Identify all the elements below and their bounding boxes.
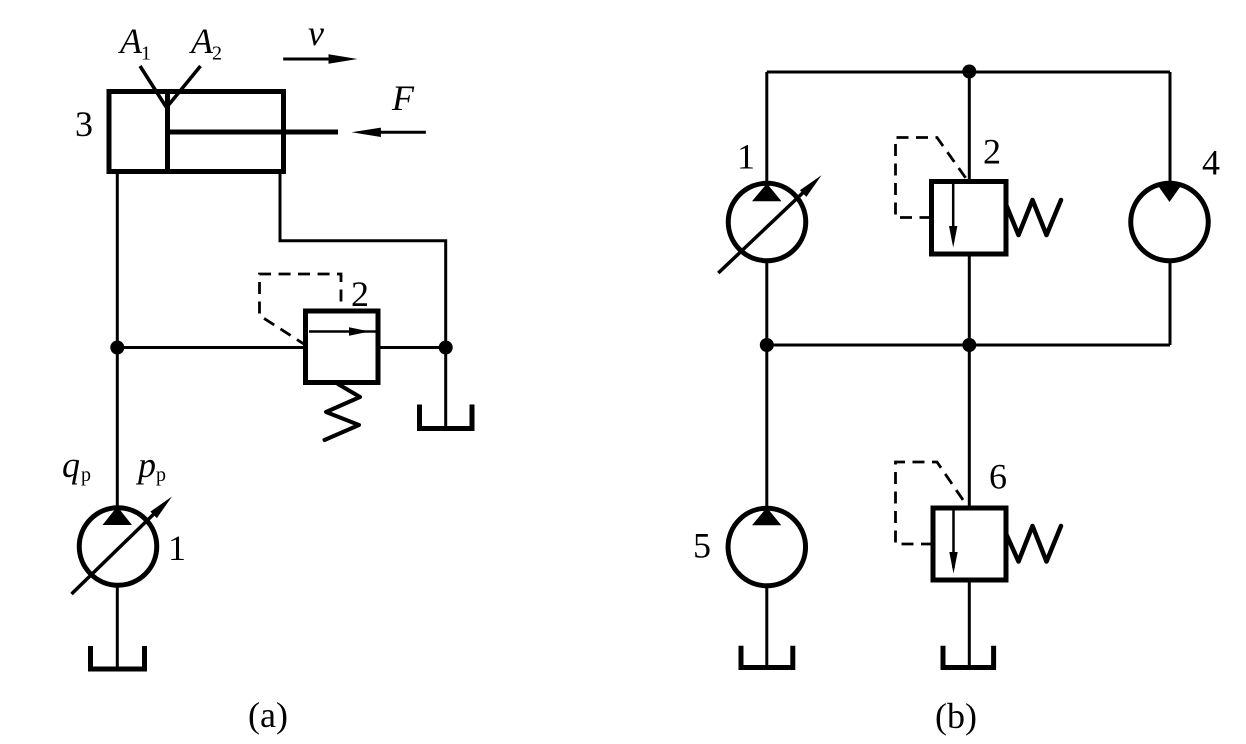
wire rod-side branch circuit a [280,172,446,427]
pump 5 triangle [752,508,781,526]
label 6 [989,457,1007,497]
svg-text:6: 6 [989,457,1007,497]
label (b) [935,696,977,736]
svg-text:(b): (b) [935,696,977,736]
junction node a-left [110,341,124,355]
svg-text:2: 2 [212,43,222,65]
cylinder 3 body [109,92,284,172]
junction node a-right [439,341,453,355]
svg-text:1: 1 [141,43,151,65]
pump 1a variable arrow [72,497,173,595]
relief valve 6 body [933,508,1006,580]
relief valve 2a body [306,311,379,383]
pump 1b circle [728,183,806,261]
pump 1a circle [79,508,157,586]
label A2 [189,21,222,65]
svg-text:p: p [81,464,91,486]
spring of valve 6 [1006,526,1061,562]
junction node b-mid-left [760,338,774,352]
svg-text:p: p [156,464,166,486]
wire pilot dashed valve 6 [896,462,968,544]
relief valve 2b body [932,182,1007,255]
wire pilot dashed valve 2a [260,274,342,346]
label 5 [693,526,711,566]
svg-text:2: 2 [983,131,1001,171]
motor 4 triangle [1157,184,1183,203]
label F [391,78,415,118]
relief valve 2a internal arrow [309,327,376,336]
svg-text:(a): (a) [248,695,288,735]
label A1 [118,21,151,65]
pump 1a triangle [103,507,133,526]
svg-text:1: 1 [737,137,755,177]
force arrow F [352,128,426,137]
svg-text:A: A [189,21,214,61]
wire middle line circuit b [767,344,1170,347]
wire valve line circuit a [117,346,445,349]
junction node b-top [962,65,976,79]
wire left branch circuit a [116,172,119,668]
pump 1b triangle [752,184,782,202]
label 1a [168,528,186,568]
label 4 [1202,143,1220,183]
svg-text:5: 5 [693,526,711,566]
wire pump 1 branch circuit b [765,72,768,345]
svg-text:A: A [118,21,143,61]
spring of valve 2b [1006,200,1061,235]
svg-text:v: v [308,13,324,53]
spring of valve 2a [325,384,361,440]
leader line A1 [140,66,167,108]
relief valve 6 internal arrow [949,510,957,574]
motor 4 circle [1131,183,1209,261]
wire pilot dashed valve 2b [896,138,968,218]
label q_p [62,445,91,486]
svg-text:q: q [62,445,80,485]
svg-text:F: F [391,78,415,118]
svg-text:4: 4 [1202,143,1220,183]
pump 5 circle [728,508,806,586]
label 2b [983,131,1001,171]
pump 1b variable arrow [718,175,821,273]
velocity arrow v [283,54,357,63]
svg-text:2: 2 [351,274,369,314]
svg-text:3: 3 [75,104,93,144]
label (a) [248,695,288,735]
wire relief valve 2 branch circuit b [968,72,971,345]
tank under pump 1a [91,646,145,669]
label 1b [737,137,755,177]
svg-text:p: p [135,445,156,485]
wire valve 6 branch circuit b [968,345,971,666]
label 2a [351,274,369,314]
cylinder 3 piston [165,92,170,172]
svg-text:1: 1 [168,528,186,568]
wire pump 5 branch circuit b [765,345,768,666]
wire motor branch circuit b [1169,72,1172,345]
relief valve 2b internal arrow [949,184,957,248]
junction node b-mid-center [962,338,976,352]
cylinder 3 rod [168,130,339,135]
label p_p [135,445,166,486]
leader line A2 [167,66,201,108]
wire top line circuit b [767,71,1170,74]
tank under valve 2a [420,405,473,429]
tank under valve 6 [943,646,994,668]
label v [308,13,324,53]
tank under pump 5 [741,646,793,668]
label 3 [75,104,93,144]
